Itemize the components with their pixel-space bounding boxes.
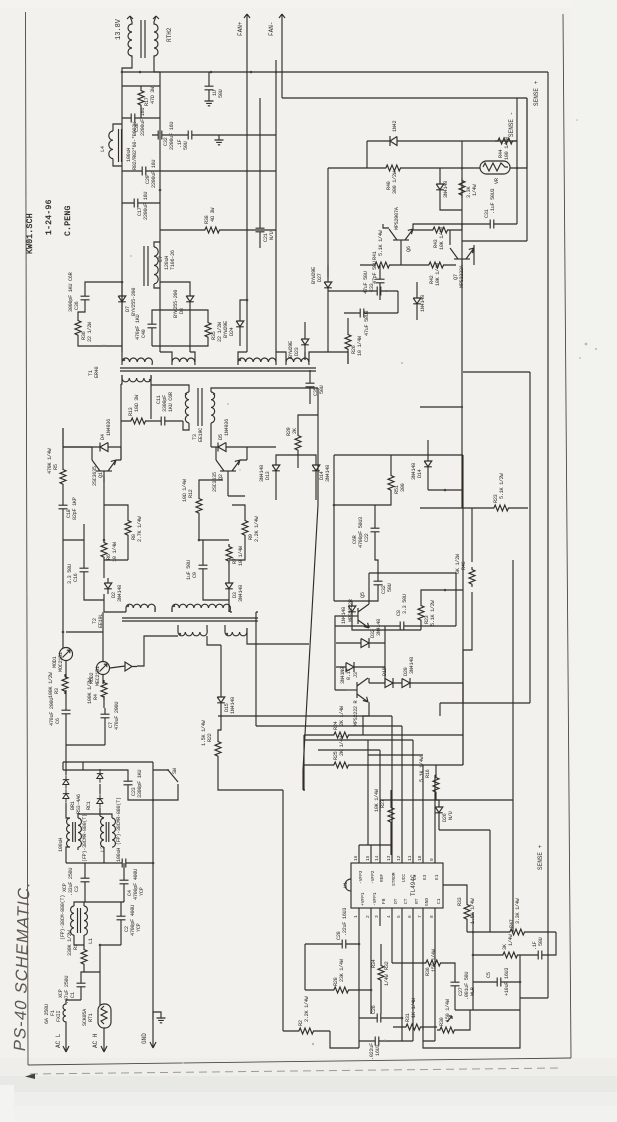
svg-text:XCP: XCP (62, 883, 68, 892)
svg-text:300 1/2W: 300 1/2W (392, 170, 398, 194)
wire top long rail SENSE+ (122, 71, 548, 73)
svg-text:50U: 50U (538, 937, 544, 946)
wire Q7 row (360, 230, 474, 282)
wire T2 top leads (104, 608, 232, 612)
svg-text:5: 5 (396, 915, 402, 918)
page edge right (schematic bottom border, rotated) (563, 14, 571, 1058)
capacitor C35 (306, 377, 315, 393)
resistor R41 (372, 262, 392, 268)
svg-text:12: 12 (396, 855, 402, 861)
svg-text:9: 9 (429, 858, 435, 861)
svg-text:YCP: YCP (139, 887, 145, 896)
svg-text:L4: L4 (100, 146, 106, 152)
svg-text:10 1/4W: 10 1/4W (112, 541, 118, 562)
svg-text:-VFP3: -VFP3 (358, 870, 364, 884)
capacitor C41 inline (371, 287, 387, 296)
svg-text:C33: C33 (369, 283, 375, 292)
svg-text:C3: C3 (74, 886, 80, 892)
svg-text:(FP)-38CMR-880(T): (FP)-38CMR-880(T) (82, 814, 88, 862)
resistor R17 (138, 88, 144, 108)
svg-text:.22uF 16U3: .22uF 16U3 (342, 908, 348, 936)
wire bottom return (402, 926, 520, 1048)
svg-text:1KU C6R: 1KU C6R (168, 392, 174, 412)
svg-text:RT: RT (414, 898, 420, 904)
resistor R30 trim (437, 1027, 457, 1033)
svg-text:MPS2907A: MPS2907A (394, 206, 400, 230)
corner arrow mark bottom-left (25, 1074, 35, 1080)
U1 pin stubs top row (pins 16..9) (359, 845, 435, 863)
svg-text:3000pF 1KU C6R: 3000pF 1KU C6R (68, 272, 74, 312)
svg-text:D23: D23 (294, 347, 300, 356)
svg-text:10 1/4W: 10 1/4W (238, 545, 244, 566)
svg-text:13.8V: 13.8V (115, 18, 123, 40)
svg-text:-VFP2: -VFP2 (370, 870, 376, 884)
resistor R16 (433, 775, 439, 795)
svg-text:8: 8 (429, 915, 435, 918)
diode D15 (217, 692, 225, 708)
svg-text:Q5: Q5 (360, 592, 366, 598)
svg-text:10 1/4W: 10 1/4W (357, 335, 363, 356)
svg-text:D27: D27 (317, 273, 323, 282)
svg-text:E1: E1 (434, 874, 440, 880)
svg-text:100uH: 100uH (58, 838, 64, 852)
capacitor C29 inline (136, 167, 152, 176)
wire Q1 collector (63, 428, 121, 460)
svg-text:.33uF 250U: .33uF 250U (68, 868, 74, 896)
capacitor C32 (374, 575, 383, 591)
svg-text:15: 15 (365, 855, 371, 861)
resistor R31 (403, 1024, 423, 1030)
svg-text:14: 14 (374, 855, 380, 861)
svg-text:22 1/2W: 22 1/2W (87, 321, 93, 342)
svg-text:3.3 50U: 3.3 50U (67, 564, 73, 584)
wire vertical 318 lower (283, 460, 318, 1031)
U1 pin numbers top (353, 855, 435, 861)
wire rail right of L7 (275, 60, 277, 352)
svg-text:Q1: Q1 (98, 472, 104, 478)
svg-text:R32: R32 (384, 961, 390, 970)
svg-text:C6: C6 (55, 718, 61, 724)
svg-text:AC L: AC L (55, 1033, 62, 1048)
svg-text:MLR: MLR (470, 987, 476, 996)
diode D16 (336, 662, 385, 672)
svg-text:0.17: 0.17 (346, 669, 352, 680)
svg-text:16U3: 16U3 (375, 1045, 381, 1056)
wire bridge (63, 762, 100, 816)
wire second long rail (282, 97, 527, 99)
optocoupler MOD1 (60, 648, 73, 661)
resistor R23 (418, 603, 424, 623)
capacitor C34 (369, 1037, 385, 1046)
wire R1 C1 (66, 945, 121, 1005)
svg-text:3.3 50U: 3.3 50U (402, 594, 408, 614)
svg-text:R3: R3 (54, 688, 60, 694)
svg-text:1: 1 (353, 915, 359, 918)
svg-text:FAN+: FAN+ (237, 21, 244, 36)
svg-text:C3: C3 (412, 874, 418, 880)
thermistor RT1 (98, 1004, 111, 1028)
capacitor C4 Y (120, 874, 129, 890)
svg-text:VR: VR (494, 178, 500, 184)
svg-text:SENSE -: SENSE - (508, 112, 515, 137)
resistor R2 bottom left of ic (296, 1028, 316, 1034)
svg-text:5.1K 1/2W: 5.1K 1/2W (430, 599, 436, 626)
capacitor C6 (62, 704, 71, 720)
svg-text:3300pF 1KU: 3300pF 1KU (137, 770, 143, 798)
wire fb to ic (391, 455, 463, 845)
capacitor C16 (80, 562, 89, 578)
resistor R51 (388, 473, 394, 493)
svg-text:C5: C5 (486, 972, 492, 978)
resistor R33 (464, 902, 470, 922)
transistor Q3 (346, 678, 368, 702)
wire loop R46 (463, 508, 472, 650)
svg-text:SCK05A: SCK05A (82, 1008, 88, 1026)
svg-text:13: 13 (386, 855, 392, 861)
crease dashed line bottom (30, 1068, 560, 1074)
svg-text:470uF 200U: 470uF 200U (49, 698, 55, 726)
T1 winding dots (123, 359, 125, 361)
svg-text:330K 1/2W: 330K 1/2W (67, 929, 73, 956)
resistor R48 (500, 952, 520, 958)
resistor R24 (331, 732, 351, 738)
capacitor C26 (371, 1014, 387, 1023)
svg-text:MEC2151: MEC2151 (95, 666, 101, 686)
svg-text:EE19C: EE19C (198, 428, 204, 442)
resistor R1 (81, 947, 87, 967)
U1 pin numbers bottom (353, 915, 435, 918)
wire D15-R22 (218, 645, 283, 790)
svg-text:100 1/4W: 100 1/4W (504, 136, 510, 160)
U1 pin stubs bottom row (pins 1..8) (359, 908, 435, 926)
wire T3 leads (151, 385, 318, 460)
svg-text:FB: FB (381, 898, 387, 904)
resistor R47 top right (507, 929, 527, 935)
svg-text:10K 1/4W: 10K 1/4W (435, 262, 441, 286)
svg-text:82pF 1KP: 82pF 1KP (72, 497, 78, 520)
svg-text:3N4148: 3N4148 (409, 657, 415, 674)
capacitor C36 (81, 290, 90, 306)
svg-text:6K 1/2W: 6K 1/2W (455, 553, 461, 574)
wire row135 (168, 135, 276, 140)
ground mid (215, 140, 224, 145)
choke L1 common mode (71, 906, 88, 935)
capacitor C21 (256, 222, 265, 238)
svg-text:BYW29E: BYW29E (223, 321, 229, 338)
svg-text:RTH2: RTH2 (166, 27, 173, 42)
resistor R34 (378, 963, 384, 983)
svg-text:BYW255-200: BYW255-200 (173, 290, 179, 318)
buffer triangle (125, 662, 137, 671)
wire caps row (85, 863, 124, 902)
capacitor C5 (491, 978, 507, 987)
capacitor C42 (354, 309, 370, 318)
wire L1 (74, 902, 124, 945)
svg-text:N/U: N/U (269, 231, 275, 240)
svg-text:C40: C40 (141, 329, 147, 338)
svg-text:2.2K 1/4W: 2.2K 1/4W (254, 515, 260, 542)
svg-text:2.7K 1/4W: 2.7K 1/4W (137, 515, 143, 542)
svg-text:BYW29E: BYW29E (288, 341, 294, 358)
svg-text:5.1K 1/2W: 5.1K 1/2W (499, 472, 505, 499)
ground symbol small (157, 1018, 166, 1023)
svg-text:7: 7 (417, 915, 423, 918)
svg-text:2.2K 1/4W: 2.2K 1/4W (304, 995, 310, 1022)
svg-text:+VFP1: +VFP1 (360, 892, 366, 906)
svg-text:FXII: FXII (56, 1011, 62, 1022)
resistor R4 (101, 680, 107, 700)
wire C28 (305, 926, 359, 965)
resistor R40 (383, 165, 403, 171)
capacitor C28 (336, 940, 352, 949)
diode D7 (118, 291, 126, 307)
diode D14b (424, 456, 432, 472)
svg-text:470uF 200U: 470uF 200U (114, 702, 120, 730)
svg-text:4: 4 (386, 915, 392, 918)
svg-text:DT: DT (393, 898, 399, 904)
svg-text:CT: CT (403, 898, 409, 904)
wire R28 row (305, 926, 371, 1014)
resistor R46 (469, 567, 475, 587)
svg-text:R5: R5 (53, 464, 59, 470)
svg-text:11: 11 (407, 855, 413, 861)
diode D22 (324, 277, 332, 293)
wire sense- bus (462, 98, 527, 241)
svg-text:(FP)-38CM-880(T): (FP)-38CM-880(T) (60, 895, 66, 940)
svg-text:10Ω 1/4W: 10Ω 1/4W (182, 478, 188, 502)
svg-text:50U: 50U (319, 385, 325, 394)
svg-text:10K 1/4W: 10K 1/4W (374, 788, 380, 812)
diode D8 (186, 291, 194, 307)
svg-text:KW01.SCH: KW01.SCH (26, 213, 35, 254)
transformer T2 secondary coils (178, 628, 247, 636)
resistor R36b (423, 960, 443, 966)
svg-text:1/4W: 1/4W (472, 184, 478, 196)
resistor R9 (242, 518, 248, 538)
svg-text:R34: R34 (371, 959, 377, 968)
svg-text:2200uF 16U: 2200uF 16U (140, 108, 146, 136)
capacitor C40 (148, 318, 157, 334)
wire top AC rail (63, 762, 178, 1020)
transistor Q1 (92, 460, 116, 482)
svg-text:6: 6 (407, 915, 413, 918)
svg-text:1N4936: 1N4936 (224, 419, 230, 436)
choke L3 (67, 818, 82, 847)
resistor R44 (495, 138, 515, 144)
wire R31 R30 row (393, 1010, 470, 1030)
wire Q5 Q3 cluster (335, 573, 456, 716)
svg-text:L2: L2 (100, 846, 106, 852)
resistor R43 (430, 227, 450, 233)
wire chokes (66, 814, 112, 863)
wire right rail (159, 72, 161, 352)
diode D 1N4742 in sense line (367, 136, 517, 168)
wire T1 bottom leads (121, 375, 151, 419)
svg-text:3.3K 1/4W: 3.3K 1/4W (515, 897, 521, 924)
svg-text:5.1K 1/4W: 5.1K 1/4W (419, 755, 425, 782)
diode D20 (393, 678, 463, 688)
svg-text:1uF 50U: 1uF 50U (186, 560, 192, 580)
diode D32 (336, 638, 385, 648)
capacitor C18 (59, 499, 68, 515)
wire D7 cluster (78, 282, 122, 352)
scan smudges (103, 119, 597, 1064)
resistor R38 (202, 227, 222, 233)
transistor Q7 (450, 248, 474, 270)
svg-text:C9: C9 (192, 572, 198, 578)
U1 pin names top (358, 870, 440, 886)
svg-text:C.PENG: C.PENG (64, 205, 73, 236)
svg-text:C36: C36 (74, 301, 80, 310)
svg-text:SENSE +: SENSE + (537, 844, 544, 870)
resistor R22 (215, 739, 221, 759)
svg-text:XCP: XCP (58, 989, 64, 998)
svg-text:3N4148: 3N4148 (376, 619, 382, 636)
svg-text:50U: 50U (218, 89, 224, 98)
svg-text:6A 250U: 6A 250U (44, 1004, 50, 1024)
page edge left (schematic top border, rotated) (26, 12, 29, 1065)
svg-text:300: 300 (400, 483, 406, 492)
op-amp U1 TL494C body (351, 863, 443, 908)
diode D14 (312, 460, 320, 476)
resistor R35 (205, 320, 211, 340)
svg-text:5.1K 1/4W: 5.1K 1/4W (378, 229, 384, 256)
wire FAN+ rail down (246, 72, 248, 352)
diode D3 (225, 578, 233, 594)
wire C31 row (462, 141, 517, 224)
bridge rectifier BR1 diodes (63, 775, 69, 789)
capacitor .1F 50U mid (182, 131, 198, 140)
svg-text:R22: R22 (207, 733, 213, 742)
wire Q2 collector (211, 440, 247, 496)
svg-text:2200uF 16U: 2200uF 16U (169, 122, 175, 150)
wire right vertical 530 (440, 372, 530, 716)
choke L2 (101, 818, 116, 847)
svg-text:.1uF 50U3: .1uF 50U3 (490, 188, 496, 214)
svg-text:1K 1/4W: 1K 1/4W (411, 997, 417, 1018)
resistor R42 (426, 262, 446, 268)
resistor R26 (345, 332, 351, 352)
wire Q1 base/emitter cluster (84, 476, 128, 612)
wire left bias chain (63, 428, 84, 560)
capacitor C37 (532, 951, 548, 960)
wire R36b C27 (392, 926, 473, 1010)
capacitor C2 Y (117, 910, 126, 926)
frame bottom border (28, 1058, 571, 1065)
resistor R8 (125, 518, 131, 538)
capacitor cap series (116, 859, 132, 868)
resistor R36 (75, 318, 81, 338)
diode D19 (369, 678, 393, 688)
svg-text:16: 16 (353, 855, 359, 861)
switch SW (160, 770, 178, 790)
svg-text:470K 1/4W: 470K 1/4W (47, 447, 53, 474)
arrow RTH2 out (153, 16, 159, 19)
wire Q2 base/emitter cluster (199, 480, 245, 612)
svg-text:C1: C1 (70, 992, 76, 998)
resistor R7 (226, 544, 232, 564)
svg-text:1/4W: 1/4W (508, 934, 514, 946)
svg-text:R33: R33 (457, 897, 463, 906)
resistor R12 (196, 496, 202, 516)
svg-text:3N4148: 3N4148 (259, 465, 265, 482)
svg-text:3N4148: 3N4148 (117, 585, 123, 602)
svg-text:47uF 50U: 47uF 50U (363, 271, 369, 294)
svg-text:1N42: 1N42 (392, 121, 398, 132)
wire +13.8 left rail (122, 60, 160, 352)
diode D23 (301, 334, 309, 350)
capacitor C11 (155, 417, 171, 426)
svg-text:R4: R4 (93, 694, 99, 700)
capacitor C9 (199, 559, 208, 575)
svg-text:Q6: Q6 (406, 246, 412, 252)
svg-text:1.5K 1/4W: 1.5K 1/4W (201, 719, 207, 746)
svg-text:R12: R12 (188, 489, 194, 498)
inductor L7 (144, 242, 160, 288)
diode D26 (435, 802, 443, 818)
svg-text:C16: C16 (73, 573, 79, 582)
arrow 13.8V out (127, 16, 133, 19)
svg-text:GND: GND (424, 898, 430, 906)
svg-text:2200uF 16U: 2200uF 16U (143, 192, 149, 220)
wire FAN- with arrow (279, 14, 285, 98)
svg-text:T106-26: T106-26 (170, 250, 176, 270)
svg-text:3N4148: 3N4148 (411, 463, 417, 480)
diode D24 (236, 316, 244, 332)
capacitor C7 (101, 708, 110, 724)
svg-text:C6R: C6R (352, 535, 358, 544)
svg-text:100K 1/2W: 100K 1/2W (48, 671, 54, 698)
U1 pin names bottom (360, 892, 442, 906)
resistor R28 (331, 987, 351, 993)
capacitor 1U 50U with ground (205, 80, 214, 96)
inductor L8 output choke with core (128, 16, 158, 62)
transformer T3 (185, 388, 214, 426)
svg-text:2K 1/4W: 2K 1/4W (339, 735, 345, 756)
capacitor C33 (376, 273, 385, 289)
svg-text:4Ω 3W: 4Ω 3W (210, 207, 216, 222)
wire pin bus hatch verticals (368, 716, 435, 845)
svg-text:R16: R16 (425, 769, 431, 778)
svg-text:C1: C1 (436, 898, 442, 904)
transistor Q6 pnp (389, 229, 413, 251)
svg-text:150 1/4W: 150 1/4W (431, 948, 437, 972)
capacitor C27 (451, 976, 460, 992)
wire Q6 (383, 224, 462, 265)
diode 1N4148 below (413, 293, 421, 309)
svg-text:C26: C26 (371, 1005, 377, 1014)
resistor R23b (491, 505, 511, 511)
wire R13 row (121, 384, 183, 460)
diode 1N4148 fb (348, 601, 356, 617)
svg-text:100uH (FP)-38CMR-880(T): 100uH (FP)-38CMR-880(T) (116, 797, 122, 862)
svg-text:23K 1/4W: 23K 1/4W (339, 958, 345, 982)
svg-text:ER40: ER40 (94, 367, 100, 378)
svg-text:C22: C22 (364, 533, 370, 542)
svg-text:MPS2222R: MPS2222R (348, 599, 354, 622)
resistor R27 (388, 805, 394, 825)
wire R33 (443, 885, 467, 932)
svg-text:R46: R46 (461, 561, 467, 570)
svg-text:R1: R1 (73, 944, 79, 950)
svg-text:J3: J3 (353, 672, 359, 678)
diode D2 (104, 578, 112, 594)
svg-text:YCP: YCP (136, 923, 142, 932)
svg-text:4700pF 50U3: 4700pF 50U3 (358, 517, 364, 548)
resistor R25 (331, 762, 351, 768)
svg-text:1N4148: 1N4148 (420, 295, 426, 312)
diode D5 (211, 443, 276, 452)
